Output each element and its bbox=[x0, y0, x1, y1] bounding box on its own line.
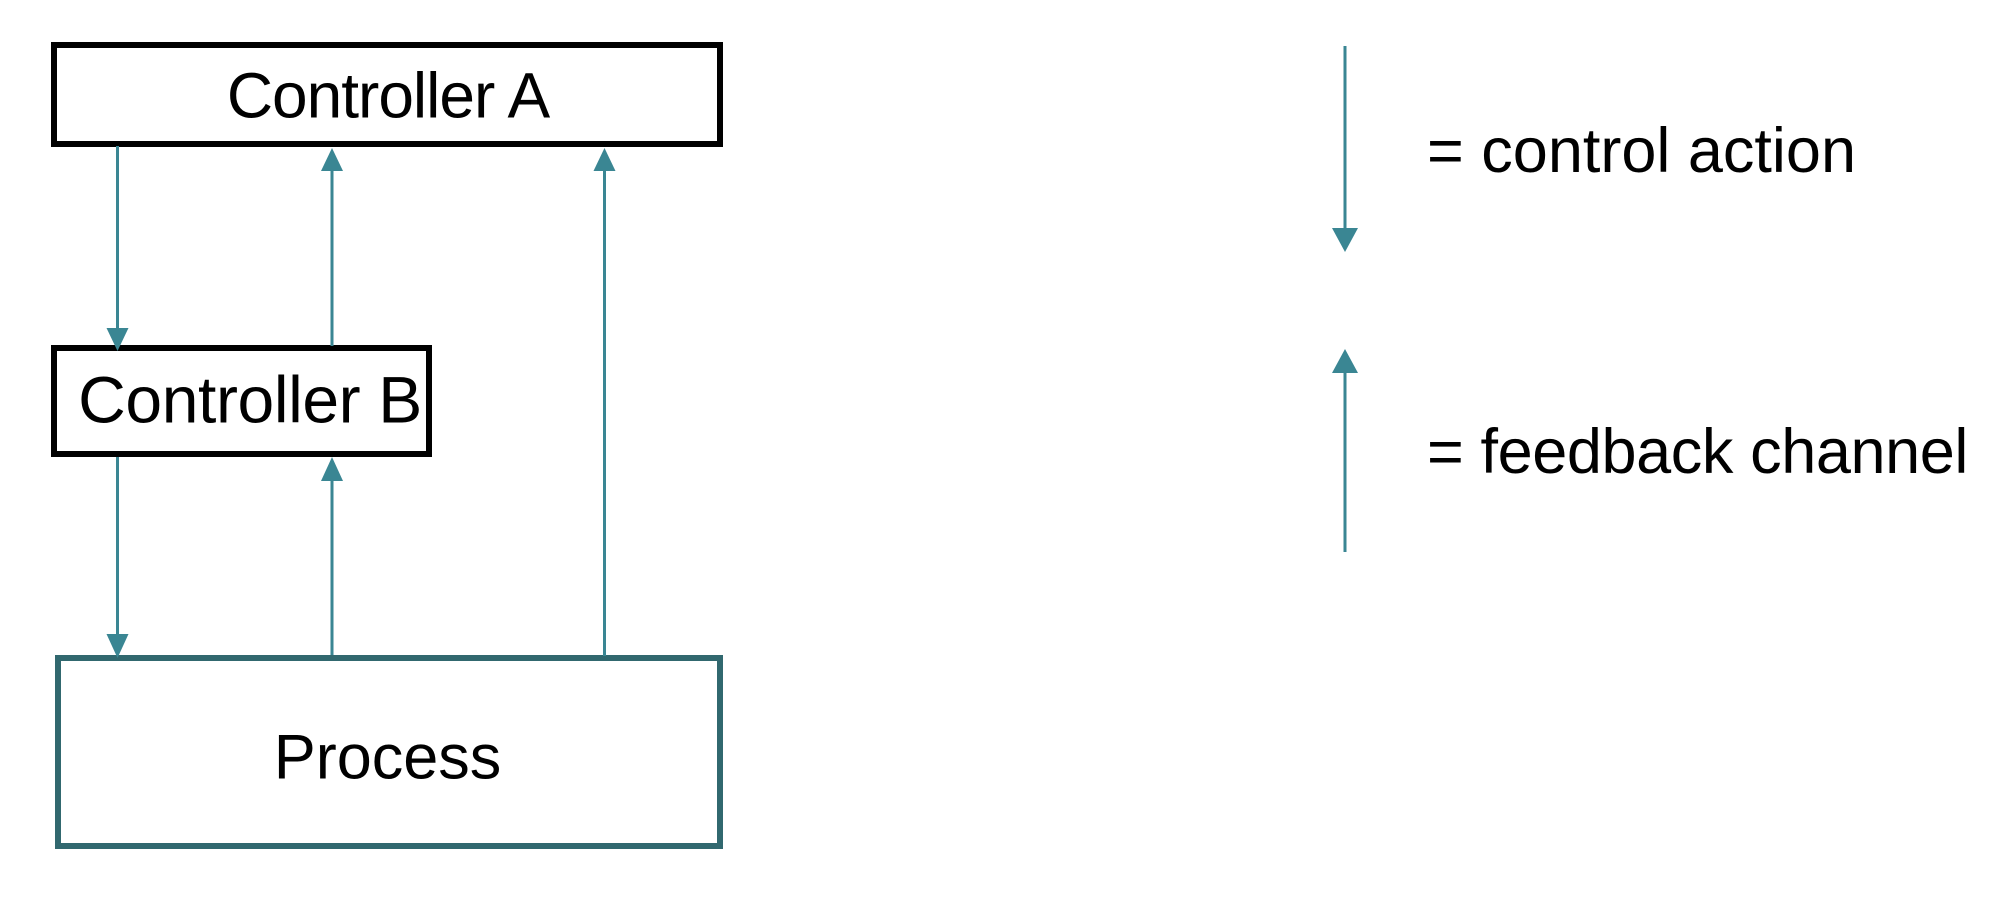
svg-text:= control action: = control action bbox=[1427, 116, 1856, 186]
svg-text:Process: Process bbox=[274, 723, 502, 793]
svg-text:Controller A: Controller A bbox=[227, 60, 551, 132]
svg-text:= feedback channel: = feedback channel bbox=[1427, 417, 1968, 487]
svg-text:Controller B: Controller B bbox=[78, 363, 422, 437]
